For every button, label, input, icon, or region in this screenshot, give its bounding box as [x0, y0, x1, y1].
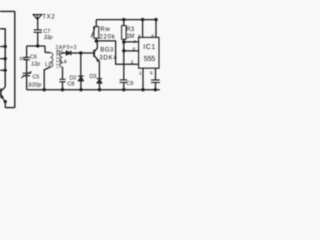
wire left vertical long	[14, 11, 16, 107]
resistor Rw	[94, 27, 99, 39]
svg-text:360: 360	[19, 56, 27, 62]
wire C10 to rail	[155, 82, 157, 89]
wire top-left horizontal	[0, 10, 15, 12]
svg-text:L4: L4	[61, 60, 67, 66]
junction C8-rail	[61, 88, 64, 91]
svg-text:C7: C7	[44, 29, 51, 35]
wire C8 to rail	[62, 82, 64, 90]
node D dot	[79, 51, 82, 54]
capacitor C5 (variable)	[23, 73, 31, 76]
resistor R3 lead	[123, 20, 125, 26]
svg-text:555: 555	[144, 56, 156, 63]
svg-text:D1: D1	[57, 50, 64, 56]
svg-text:220k: 220k	[99, 33, 115, 40]
wire emitter down	[98, 61, 100, 78]
diode D3	[97, 79, 102, 84]
junction pin1-rail	[141, 88, 144, 91]
junction C10-rail	[154, 88, 157, 91]
capacitor C7	[34, 30, 42, 32]
svg-text:D3: D3	[90, 74, 97, 80]
svg-text:R3: R3	[126, 27, 135, 33]
wire pin5	[155, 68, 157, 80]
wire R3 bottom	[123, 39, 125, 42]
node B dot	[95, 39, 98, 42]
arrow of C5	[21, 72, 31, 78]
wire C7 to node A	[37, 32, 39, 46]
svg-text:TX2: TX2	[42, 14, 55, 21]
diode D2	[78, 76, 84, 81]
wire C5 to rail	[26, 76, 28, 90]
svg-text:5: 5	[150, 71, 153, 77]
dot pin6 node	[122, 49, 125, 52]
wire bottom-left	[5, 107, 15, 109]
wire collector node to pin2	[96, 41, 138, 64]
junction D3-rail	[98, 88, 101, 91]
node tap1	[0, 46, 5, 48]
svg-text:C5: C5	[33, 75, 40, 81]
svg-text:IC1: IC1	[143, 44, 155, 51]
wire node C down	[123, 42, 125, 51]
wire D2 to rail	[80, 81, 82, 90]
junction C9-rail	[122, 88, 125, 91]
svg-text:2: 2	[131, 59, 134, 65]
inductor L3	[45, 51, 50, 53]
dot pin4	[141, 18, 144, 21]
svg-text:8: 8	[151, 34, 154, 40]
svg-text:1M: 1M	[126, 34, 134, 40]
wire down to L3	[44, 46, 46, 52]
svg-text:12p: 12p	[31, 62, 40, 68]
node A dot	[36, 44, 39, 47]
wire node A horizontal	[27, 45, 45, 47]
junction D2-rail	[79, 88, 82, 91]
svg-text:3DK4: 3DK4	[99, 55, 117, 62]
labels	[19, 14, 155, 89]
svg-text:C9: C9	[126, 81, 133, 87]
svg-text:C6: C6	[30, 55, 37, 61]
capacitor C6	[23, 57, 29, 59]
wire C9 to rail	[123, 82, 125, 90]
wire pin1	[142, 68, 144, 90]
dot R3 top	[122, 18, 125, 21]
wire Rw bottom	[95, 38, 97, 41]
transistor BG3	[94, 41, 99, 62]
capacitor C10	[151, 80, 160, 83]
capacitor C9	[120, 80, 128, 83]
capacitor C6 branch wire	[26, 46, 28, 58]
junction L3-rail	[43, 88, 46, 91]
diode D1	[66, 51, 71, 56]
wire node D down	[80, 53, 82, 76]
inductor L4	[60, 53, 62, 67]
svg-text:BG3: BG3	[100, 46, 114, 53]
svg-text:C8: C8	[68, 81, 75, 87]
capacitor C8	[59, 79, 65, 82]
node tap3	[0, 69, 5, 71]
wire D3 to rail	[99, 83, 101, 89]
wire L4 top to D1	[63, 52, 67, 54]
wire pin4	[142, 20, 144, 38]
wire down to C9	[123, 51, 125, 80]
transformer core	[56, 51, 58, 69]
wire inner-left vertical lower	[4, 102, 6, 108]
wire inner-left vertical upper	[0, 29, 5, 87]
svg-text:33p: 33p	[44, 35, 53, 41]
resistor Rw lead top	[95, 20, 97, 27]
antenna TX2	[33, 15, 42, 20]
svg-text:Rw: Rw	[100, 26, 110, 33]
node C dot	[122, 40, 125, 43]
svg-text:6: 6	[133, 46, 136, 52]
wire antenna lead	[37, 20, 39, 30]
transistor BG (cropped at left edge)	[0, 87, 5, 102]
IC1 555 box	[139, 37, 159, 68]
wire L3 bottom	[44, 67, 50, 90]
resistor R3	[122, 26, 127, 40]
bottom rail	[27, 89, 160, 91]
dot pin8	[154, 18, 157, 21]
wire C6 to C5	[26, 60, 28, 74]
wire L4 bottom to C8	[62, 67, 64, 79]
svg-text:4: 4	[138, 34, 141, 40]
wire D1 to base	[71, 52, 94, 54]
top rail	[96, 19, 157, 21]
svg-text:7: 7	[133, 40, 136, 46]
node tap2	[0, 58, 5, 60]
arrow of Rw	[91, 29, 94, 38]
svg-text:1: 1	[139, 71, 142, 77]
wire pin6	[124, 50, 139, 52]
svg-text:3/20p: 3/20p	[28, 83, 42, 89]
wire pin7	[124, 41, 139, 43]
svg-text:L3: L3	[45, 62, 51, 68]
wire pin8	[155, 20, 157, 38]
